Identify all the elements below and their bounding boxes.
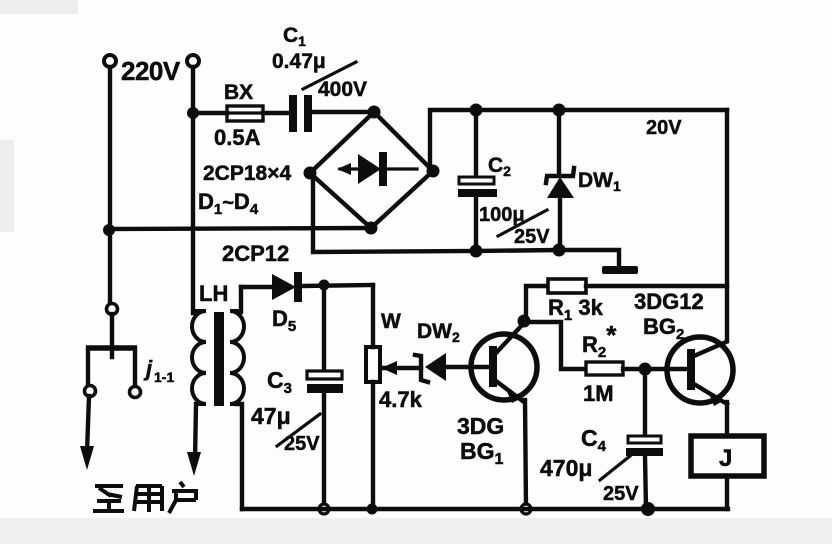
- node fuse junction: [187, 107, 199, 119]
- node D5/C3: [319, 280, 330, 291]
- transistor BG1: [471, 323, 537, 403]
- wire C4 top lead: [643, 369, 647, 437]
- wire relay bottom to rail: [725, 476, 729, 509]
- svg-text:1M: 1M: [583, 381, 614, 406]
- wire left terminal down: [108, 67, 112, 303]
- svg-text:0.47μ: 0.47μ: [272, 50, 326, 73]
- wire secondary top: [238, 287, 241, 312]
- resistor R2: [586, 362, 623, 375]
- node bridge bottom: [365, 222, 378, 235]
- bottom rail: [242, 507, 728, 511]
- wire +20V top rail: [476, 108, 727, 112]
- wire DW1 bottom lead: [558, 198, 562, 250]
- svg-text:25V: 25V: [603, 483, 639, 505]
- arrow to user left: [80, 446, 94, 470]
- label to-user (Chinese): [93, 482, 198, 513]
- scan gray patch bottom strip: [0, 518, 832, 544]
- wire W top: [371, 285, 375, 347]
- svg-text:3DG: 3DG: [457, 413, 504, 439]
- svg-text:2CP12: 2CP12: [222, 241, 289, 266]
- svg-text:R1 3k: R1 3k: [548, 295, 604, 324]
- wire DW1 top lead: [557, 110, 561, 174]
- node BG1 emitter on rail (open): [521, 504, 531, 514]
- svg-text:J: J: [719, 445, 732, 472]
- wire C2 top lead: [474, 110, 478, 178]
- primary coil: [192, 311, 206, 404]
- core: [214, 312, 224, 406]
- node BG1 collector: [518, 315, 531, 328]
- svg-text:2CP18×4: 2CP18×4: [203, 162, 291, 185]
- bridge rectifier D1-D4 diamond: [310, 112, 433, 228]
- svg-text:3DG12: 3DG12: [634, 289, 704, 314]
- svg-text:0.5A: 0.5A: [214, 125, 261, 150]
- wire C4 bottom lead: [645, 456, 646, 509]
- slash C1: [303, 62, 356, 89]
- wire fuse row: [193, 111, 227, 115]
- wire R2 to BG2 base: [623, 367, 688, 371]
- scan gray patch left edge: [0, 140, 14, 232]
- bridge inner diode: [337, 152, 417, 186]
- capacitor C1: [289, 95, 312, 132]
- wire C3 bottom lead: [322, 393, 326, 505]
- transistor BG2: [667, 337, 733, 406]
- capacitor C4: [626, 436, 663, 456]
- svg-text:20V: 20V: [646, 117, 682, 139]
- svg-text:400V: 400V: [318, 78, 367, 101]
- wire right terminal down to transformer: [191, 67, 195, 313]
- arrow to user right: [187, 452, 201, 476]
- slash C2: [498, 210, 547, 236]
- capacitor C2: [458, 177, 497, 197]
- wire primary bottom to arrow: [195, 404, 196, 460]
- slash C4: [600, 456, 630, 480]
- node DW1 bottom: [553, 244, 566, 257]
- wire secondary bottom to rail: [237, 404, 242, 509]
- node C3 bottom (open): [319, 504, 329, 514]
- svg-text:LH: LH: [199, 281, 228, 306]
- wire bridge left corner down to -rail: [310, 173, 476, 252]
- node bridge left: [304, 167, 317, 180]
- svg-text:470μ: 470μ: [540, 455, 592, 481]
- zhi: [93, 486, 124, 511]
- node bridge right: [427, 165, 440, 178]
- svg-text:1-1: 1-1: [154, 369, 174, 385]
- potentiometer W: [366, 347, 380, 382]
- transformer LH: [192, 311, 244, 406]
- node C2 bottom: [470, 245, 483, 258]
- svg-text:220V: 220V: [121, 56, 181, 86]
- terminal T2 (220V right): [187, 55, 199, 67]
- zener DW1: [546, 168, 574, 198]
- fuse BX: [227, 106, 263, 121]
- diode D5: [241, 272, 373, 302]
- wire bridge right corner up to +rail: [430, 110, 476, 171]
- wire switch to arrow: [87, 396, 89, 452]
- hu: [169, 482, 198, 513]
- capacitor C3: [307, 371, 343, 393]
- svg-text:BX: BX: [224, 81, 253, 104]
- resistor R1: [524, 279, 727, 321]
- node bridge top: [368, 106, 381, 119]
- svg-text:D1~D4: D1~D4: [198, 189, 259, 218]
- wire -rail to ground: [476, 250, 619, 267]
- wire BG1 emitter down: [525, 400, 526, 506]
- slash C3: [277, 414, 320, 446]
- node C2 top: [470, 104, 483, 117]
- wire C1 to bridge top: [312, 110, 374, 114]
- secondary coil: [230, 311, 244, 404]
- svg-text:100μ: 100μ: [479, 204, 525, 226]
- wire W bottom: [371, 382, 375, 509]
- node W bottom: [367, 504, 378, 515]
- wire AC return to bridge bottom: [109, 228, 371, 229]
- ground: [602, 266, 638, 274]
- node C4 bottom: [641, 502, 655, 516]
- svg-text:47μ: 47μ: [251, 403, 291, 429]
- relay J: [691, 436, 764, 476]
- wire BG2 emitter to relay: [725, 402, 729, 435]
- wire node to R2: [524, 322, 586, 369]
- node DW1 top: [553, 104, 566, 117]
- svg-text:25V: 25V: [514, 226, 550, 248]
- svg-text:W: W: [381, 310, 401, 333]
- switch j1-1: [85, 304, 141, 398]
- terminal T1 (220V left): [104, 55, 116, 67]
- yong: [134, 486, 162, 512]
- node R2/C4: [639, 363, 652, 376]
- zener DW2: [381, 353, 489, 382]
- wire right rail down to BG2 collector: [725, 110, 729, 341]
- scan gray patch top-left: [0, 0, 78, 14]
- wire fuse to C1: [263, 111, 290, 115]
- svg-text:25V: 25V: [284, 433, 320, 455]
- svg-text:4.7k: 4.7k: [379, 387, 423, 412]
- wire C3 top lead: [322, 285, 326, 371]
- node at AC return: [103, 224, 115, 236]
- wire C2 bottom lead: [474, 197, 478, 251]
